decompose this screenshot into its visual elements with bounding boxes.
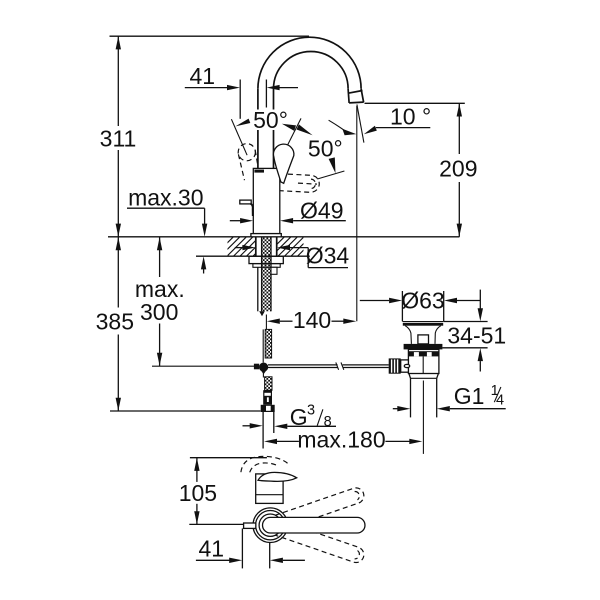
svg-text:Ø63: Ø63 <box>401 288 444 314</box>
svg-text:max.180: max.180 <box>297 427 385 453</box>
svg-text:300: 300 <box>140 299 178 325</box>
svg-text:41: 41 <box>190 63 216 89</box>
svg-text:Ø34: Ø34 <box>306 243 350 269</box>
svg-text:41: 41 <box>199 536 225 562</box>
svg-text:G: G <box>290 404 308 430</box>
svg-text:34-51: 34-51 <box>447 323 506 349</box>
svg-text:105: 105 <box>179 480 217 506</box>
svg-text:max.30: max.30 <box>128 185 203 211</box>
svg-text:8: 8 <box>324 414 332 430</box>
svg-text:209: 209 <box>439 156 477 182</box>
svg-text:10 °: 10 ° <box>390 104 431 130</box>
svg-text:Ø49: Ø49 <box>300 198 343 224</box>
svg-text:50°: 50° <box>308 136 343 162</box>
svg-text:311: 311 <box>100 126 137 152</box>
svg-text:50°: 50° <box>253 107 288 133</box>
svg-text:3: 3 <box>307 403 315 419</box>
svg-text:385: 385 <box>96 309 134 335</box>
svg-text:140: 140 <box>293 307 331 333</box>
svg-text:G1: G1 <box>454 383 485 409</box>
